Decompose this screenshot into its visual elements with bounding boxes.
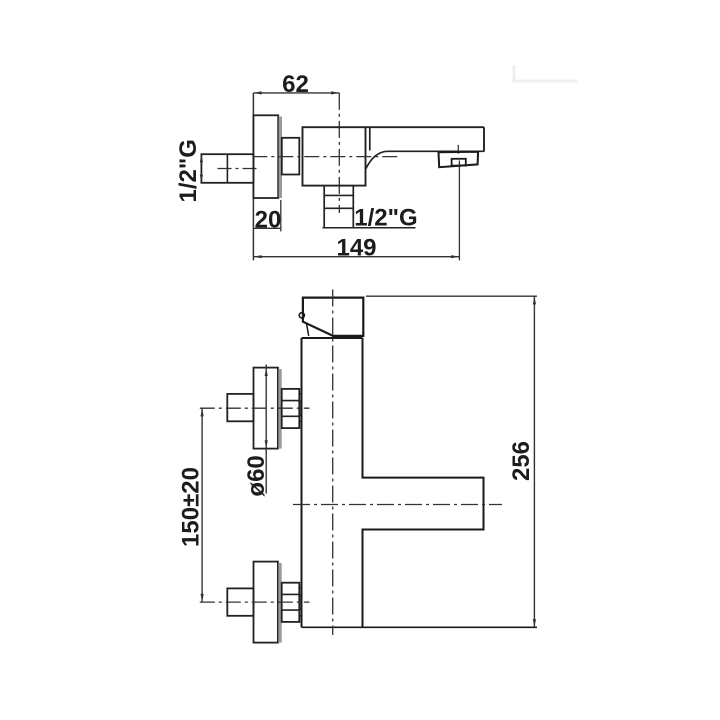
bottom union flange shadow — [278, 563, 281, 643]
dim 62 arrow left — [253, 91, 261, 94]
top stub visible right of nut (upper) — [299, 393, 301, 395]
dim 256 arrow up — [533, 296, 536, 304]
outlet right edge — [352, 186, 354, 228]
phi60 arrow down — [265, 440, 268, 448]
phi60 arrow up — [265, 368, 268, 376]
dim 149 right extension line — [458, 161, 460, 261]
pipe thread dim arrow up — [200, 154, 203, 162]
lever inner edge — [307, 324, 309, 336]
top stub visible right of nut (lower) — [299, 420, 301, 422]
dim 149 line — [253, 256, 459, 258]
bottom nut facet 2 — [282, 609, 300, 611]
bottom nut facet 1 — [282, 593, 300, 595]
dim 20 line — [253, 227, 280, 229]
aerator center tick — [457, 145, 459, 154]
pipe centerline — [218, 168, 261, 170]
flange shadow — [279, 117, 282, 199]
top nut middle bulge — [299, 401, 301, 417]
wall flange (side view) — [253, 115, 278, 198]
dim 62 arrow right — [331, 91, 339, 94]
bottom union nut — [282, 583, 300, 622]
dim 256 top extension — [366, 295, 537, 297]
svg-text:150±20: 150±20 — [178, 467, 205, 547]
connector between flange and body — [282, 138, 300, 175]
bottom stub visible right of nut (upper) — [299, 587, 301, 589]
top nut facet 1 — [282, 400, 300, 402]
bottom union pipe stub — [227, 588, 253, 615]
bottom nut middle bulge — [299, 594, 301, 610]
top union flange shadow — [278, 369, 281, 449]
lever handle — [303, 298, 363, 336]
top nut facet 2 — [282, 415, 300, 417]
faucet body (side view) — [303, 127, 366, 185]
dim 150 arrow down — [201, 594, 204, 602]
dim 20 extension line — [280, 200, 282, 231]
top union flange — [254, 368, 278, 449]
svg-text:62: 62 — [282, 71, 309, 98]
phi60 dim line through flange — [265, 365, 267, 494]
pipe step divider — [226, 154, 228, 183]
spout horizontal centerline — [293, 504, 502, 506]
aerator body — [439, 152, 479, 168]
body outline (front view with spout arm) — [302, 338, 484, 627]
spout fillet curve — [366, 151, 387, 169]
vertical centerline (front view) — [332, 290, 334, 636]
top union centerline — [200, 407, 310, 409]
top union pipe stub — [227, 394, 253, 421]
svg-text:149: 149 — [336, 234, 376, 261]
bottom stub visible right of nut (lower) — [299, 615, 301, 617]
svg-text:256: 256 — [508, 441, 535, 481]
outlet thread line 2 — [324, 207, 353, 209]
check-valve pipe — [201, 154, 253, 183]
bottom union flange — [254, 562, 278, 643]
dim 149 arrow left — [253, 255, 261, 258]
body vertical centerline — [338, 93, 340, 213]
svg-text:20: 20 — [255, 206, 282, 233]
spout bottom edge — [387, 150, 484, 152]
top union nut — [282, 389, 300, 428]
dim 149 arrow right — [451, 255, 459, 258]
bottom union centerline — [200, 601, 310, 603]
outlet left edge — [323, 186, 325, 228]
spout ring line — [369, 127, 371, 150]
dim 256 arrow down — [533, 619, 536, 627]
spout top edge — [366, 126, 485, 128]
spout right edge — [483, 127, 485, 151]
horizontal centerline (side view) — [252, 156, 398, 158]
outlet thread line 1 — [324, 194, 353, 196]
body bottom edge + 256 bottom extension — [302, 626, 538, 628]
svg-text:ø60: ø60 — [243, 455, 270, 496]
faint watermark remnant top-right — [514, 65, 577, 81]
dim 256 line — [533, 296, 535, 627]
dim 150+-20 line — [201, 408, 203, 602]
dim 62 line — [253, 92, 339, 94]
lever indicator circle — [299, 313, 304, 318]
outlet bottom line + label underline — [323, 227, 416, 229]
svg-text:1/2"G: 1/2"G — [175, 139, 202, 202]
dim 150 arrow up — [201, 408, 204, 416]
aerator inner — [452, 159, 466, 166]
svg-text:1/2"G: 1/2"G — [354, 205, 417, 232]
extension line left (also flange left edge / 149 left ext) — [252, 93, 254, 261]
pipe thread dim arrow down — [200, 175, 203, 183]
